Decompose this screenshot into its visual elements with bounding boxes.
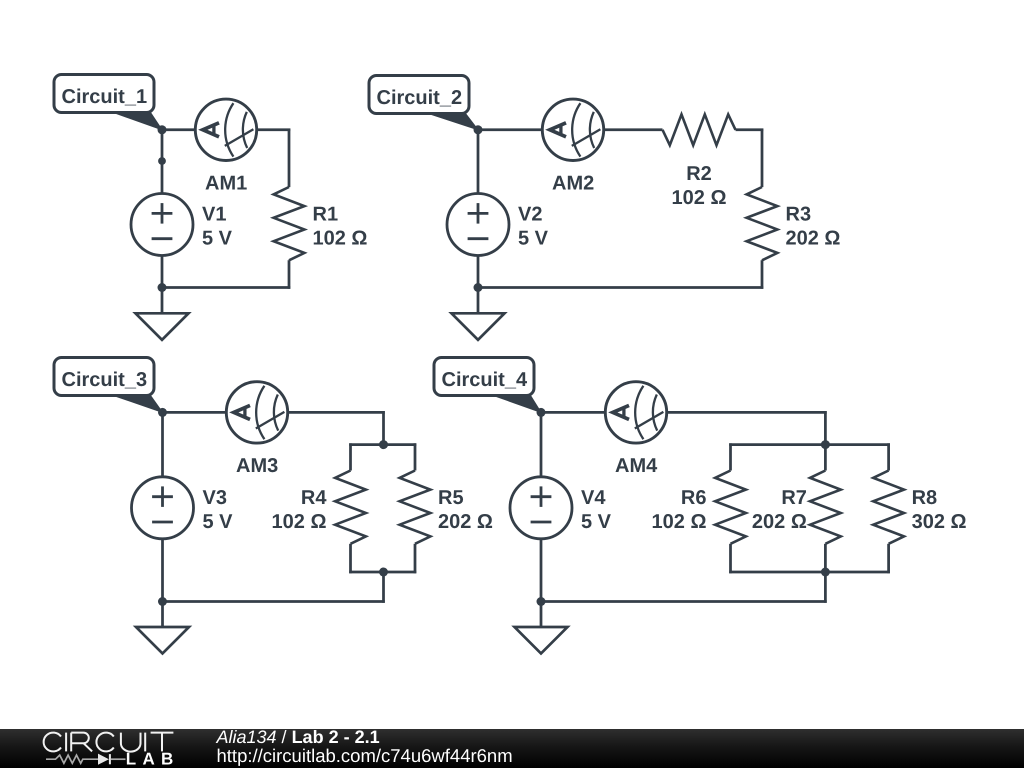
svg-text:R6: R6	[681, 487, 707, 509]
svg-text:R7: R7	[781, 487, 807, 509]
label V4 value	[581, 487, 612, 533]
net flag Circuit_4	[434, 358, 541, 413]
wire bottom rail circuit 1	[162, 286, 290, 289]
svg-text:102 Ω: 102 Ω	[672, 187, 727, 209]
svg-text:102 Ω: 102 Ω	[313, 228, 368, 250]
wire R3 to bottom corner	[761, 260, 764, 289]
svg-text:R1: R1	[313, 204, 339, 226]
label V2 value	[518, 204, 549, 250]
wire R1 to bottom corner	[288, 260, 291, 289]
svg-text:R4: R4	[301, 487, 327, 509]
label R6 value	[652, 487, 707, 533]
junction dot circuit 1	[158, 157, 166, 165]
wire top bar parallel R6 R7 R8	[729, 443, 890, 446]
wire R7 top stub	[824, 445, 827, 471]
wire bottom bar parallel R4 R5	[349, 571, 416, 574]
voltage source V1	[131, 194, 193, 256]
ground circuit 2	[452, 313, 505, 340]
ground circuit 1	[136, 313, 189, 340]
node Circuit_3	[158, 408, 167, 417]
svg-text:202 Ω: 202 Ω	[752, 511, 807, 533]
wire AM2 to R2	[603, 128, 663, 131]
voltage source V3	[132, 477, 194, 539]
svg-text:Circuit_2: Circuit_2	[377, 87, 463, 109]
logo diode	[98, 754, 126, 765]
wire V2 to ground	[477, 256, 480, 314]
logo LAB	[126, 750, 180, 768]
resistor R5	[400, 471, 431, 544]
node parallel top circuit 3	[379, 440, 388, 449]
node Circuit_2	[474, 125, 483, 134]
node parallel bottom circuit 3	[379, 568, 388, 577]
node Circuit_4	[537, 408, 546, 417]
svg-text:5 V: 5 V	[518, 228, 549, 250]
svg-text:102 Ω: 102 Ω	[652, 511, 707, 533]
resistor R7	[810, 471, 841, 544]
svg-text:Circuit_3: Circuit_3	[62, 369, 148, 391]
wire node down to junction	[161, 130, 164, 161]
net flag Circuit_3	[54, 358, 163, 413]
wire parallel bottom to rail	[382, 572, 385, 603]
resistor R3	[747, 187, 778, 260]
svg-text:AM2: AM2	[552, 172, 594, 194]
wire parallel bottom to rail	[824, 572, 827, 603]
ammeter AM1	[195, 99, 256, 160]
wire corner down to parallel top	[824, 411, 827, 445]
svg-text:http://circuitlab.com/c74u6wf4: http://circuitlab.com/c74u6wf44r6nm	[217, 745, 513, 766]
svg-text:AM3: AM3	[236, 455, 278, 477]
footer bar	[0, 729, 1024, 768]
node parallel top circuit 4	[821, 440, 830, 449]
wire R2 to corner	[736, 128, 764, 131]
svg-text:302 Ω: 302 Ω	[912, 511, 967, 533]
ammeter AM2	[542, 99, 603, 160]
wire bottom rail circuit 4	[541, 600, 827, 603]
label AM3	[236, 455, 278, 477]
node bottom circuit 2	[474, 283, 483, 292]
wire node down to V4	[540, 412, 543, 476]
label R4 value	[272, 487, 328, 533]
wire R5 bottom stub	[414, 544, 417, 574]
label R5 value	[438, 487, 493, 533]
svg-text:V1: V1	[202, 204, 226, 226]
resistor R8	[873, 471, 904, 544]
svg-text:V2: V2	[518, 204, 542, 226]
node bottom circuit 4	[537, 597, 546, 606]
net flag Circuit_2	[369, 76, 478, 130]
wire AM1 to corner	[256, 128, 290, 131]
wire node to AM3	[163, 411, 228, 414]
footer url text	[217, 745, 513, 766]
node parallel bottom circuit 4	[821, 568, 830, 577]
wire node to AM1	[162, 128, 196, 131]
node bottom circuit 3	[158, 597, 167, 606]
ammeter AM3	[226, 382, 287, 443]
wire bottom rail circuit 2	[478, 286, 763, 289]
wire node down to V2	[477, 130, 480, 194]
node bottom circuit 1	[158, 283, 167, 292]
svg-text:R8: R8	[912, 487, 938, 509]
svg-text:Circuit_1: Circuit_1	[62, 86, 148, 108]
svg-text:AM4: AM4	[615, 455, 658, 477]
wire V1 to ground node	[161, 256, 164, 314]
wire junction to V1	[161, 161, 164, 194]
voltage source V4	[510, 477, 572, 539]
svg-text:202 Ω: 202 Ω	[786, 228, 841, 250]
wire R6 bottom stub	[729, 544, 732, 574]
svg-text:R3: R3	[786, 204, 812, 226]
label R7 value	[752, 487, 807, 533]
ammeter AM4	[605, 382, 666, 443]
svg-text:102 Ω: 102 Ω	[272, 511, 327, 533]
svg-text:5 V: 5 V	[202, 228, 233, 250]
label AM4	[615, 455, 658, 477]
footer title text	[216, 727, 380, 747]
wire R4 bottom stub	[349, 544, 352, 574]
wire corner down to R3	[761, 129, 764, 188]
svg-text:LAB: LAB	[126, 750, 180, 768]
wire R8 top stub	[887, 443, 890, 470]
label R1 value	[313, 204, 368, 250]
svg-text:V4: V4	[581, 487, 606, 509]
resistor R4	[335, 471, 366, 544]
net flag Circuit_1	[54, 75, 162, 130]
label R2 value	[672, 163, 727, 209]
node Circuit_1	[158, 125, 167, 134]
svg-text:Circuit_4: Circuit_4	[442, 369, 528, 391]
logo CIRCUIT	[44, 733, 174, 752]
ground circuit 3	[136, 627, 189, 654]
wire bottom bar parallel R6 R7 R8	[729, 571, 890, 574]
wire AM4 to corner	[666, 411, 827, 414]
voltage source V2	[447, 194, 509, 256]
wire corner down to R1	[288, 129, 291, 188]
svg-text:5 V: 5 V	[581, 511, 612, 533]
wire V3 to ground	[161, 539, 164, 627]
svg-text:R5: R5	[438, 487, 464, 509]
resistor R2	[663, 114, 736, 145]
wire AM3 to corner	[287, 411, 385, 414]
wire node to AM4	[541, 411, 606, 414]
wire V4 to ground	[540, 539, 543, 627]
label AM2	[552, 172, 594, 194]
resistor R6	[715, 471, 746, 544]
wire R8 bottom stub	[887, 544, 890, 574]
logo resistor squiggle	[46, 755, 98, 763]
wire node down to V3	[161, 412, 164, 476]
wire node to AM2	[478, 128, 543, 131]
svg-text:202 Ω: 202 Ω	[438, 511, 493, 533]
label V1 value	[202, 204, 233, 250]
resistor R1	[274, 187, 305, 260]
wire bottom rail circuit 3	[163, 600, 385, 603]
svg-text:V3: V3	[203, 487, 227, 509]
label R8 value	[912, 487, 967, 533]
svg-text:R2: R2	[686, 163, 712, 185]
svg-text:5 V: 5 V	[203, 511, 234, 533]
ground circuit 4	[515, 627, 568, 654]
wire R4 top stub	[349, 443, 352, 470]
label AM1	[205, 172, 247, 194]
svg-text:AM1: AM1	[205, 172, 247, 194]
wire R5 top stub	[414, 443, 417, 470]
label V3 value	[203, 487, 234, 533]
wire R7 bottom stub	[824, 544, 827, 572]
wire top bar parallel R4 R5	[349, 443, 416, 446]
wire R6 top stub	[729, 443, 732, 470]
label R3 value	[786, 204, 841, 250]
wire corner down to parallel top	[382, 411, 385, 445]
